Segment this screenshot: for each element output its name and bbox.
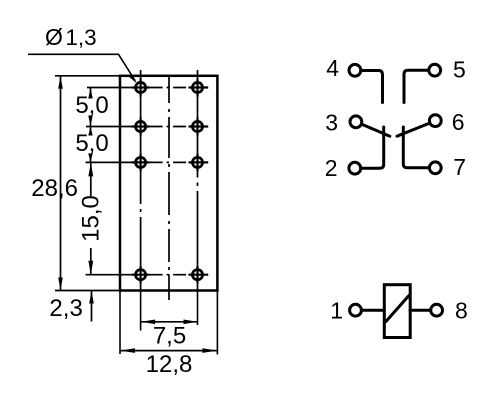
svg-text:Ø: Ø	[45, 24, 63, 50]
svg-text:1,3: 1,3	[65, 25, 96, 50]
svg-text:5: 5	[453, 57, 466, 83]
svg-text:4: 4	[326, 55, 339, 81]
svg-text:3: 3	[325, 110, 338, 136]
svg-text:15,0: 15,0	[78, 195, 105, 242]
svg-text:28,6: 28,6	[31, 175, 78, 202]
svg-text:5,0: 5,0	[75, 130, 108, 157]
svg-text:8: 8	[455, 298, 468, 324]
svg-text:7,5: 7,5	[153, 323, 186, 350]
svg-text:2: 2	[325, 155, 338, 181]
svg-text:1: 1	[330, 298, 343, 324]
svg-text:7: 7	[453, 154, 466, 180]
svg-text:12,8: 12,8	[146, 351, 193, 378]
svg-text:5,0: 5,0	[75, 92, 108, 119]
svg-text:6: 6	[452, 109, 465, 135]
svg-text:2,3: 2,3	[49, 295, 82, 322]
